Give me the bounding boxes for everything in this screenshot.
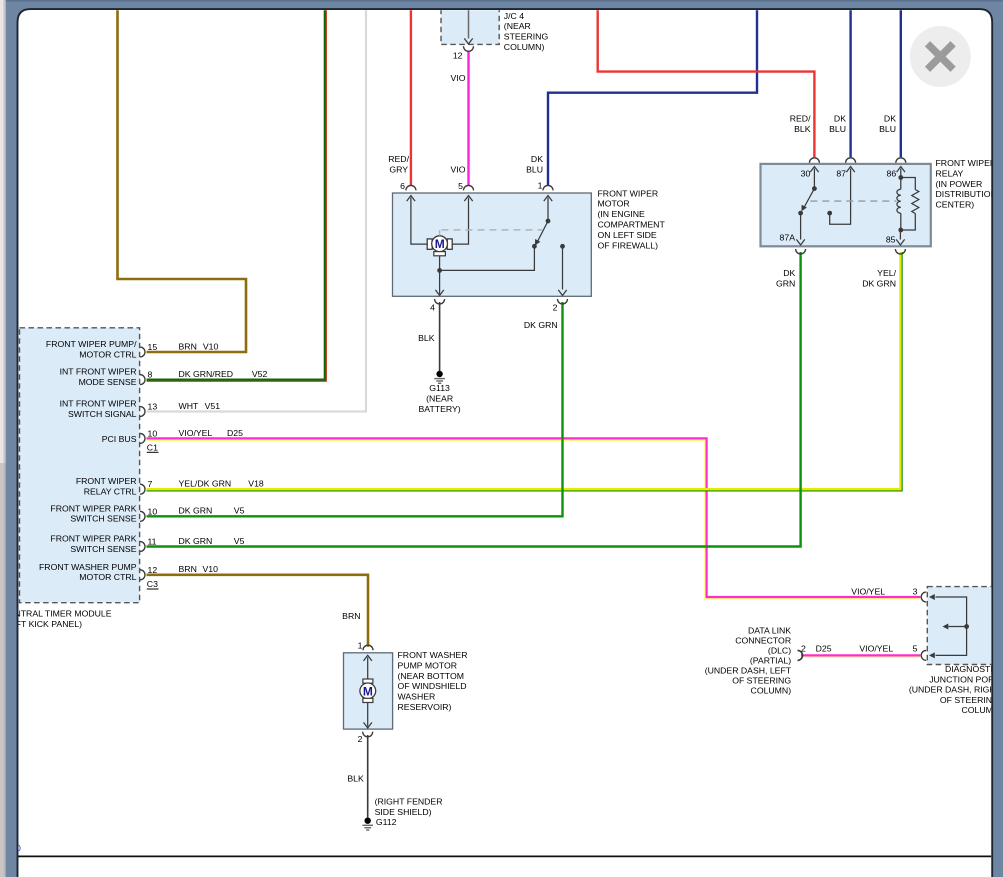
ground G112 bbox=[365, 818, 371, 824]
wiper motor pin 5 notch bbox=[464, 185, 474, 190]
svg-text:10: 10 bbox=[148, 506, 158, 516]
svg-text:CENTER): CENTER) bbox=[936, 200, 975, 210]
relay resistor R parallel to coil bbox=[901, 178, 916, 190]
svg-text:DK GRN: DK GRN bbox=[179, 506, 213, 516]
relay internal pin 30 wire and arrow bbox=[810, 167, 818, 173]
svg-text:BLK: BLK bbox=[418, 333, 435, 343]
svg-text:SWITCH SIGNAL: SWITCH SIGNAL bbox=[68, 409, 137, 419]
module pin 10 notch bbox=[140, 433, 145, 443]
motor symbol M of wiper motor bbox=[427, 239, 432, 249]
svg-text:WASHER: WASHER bbox=[398, 692, 436, 702]
alternate contact node and wire to pin 2 bbox=[560, 244, 565, 249]
svg-text:YEL/DK GRN: YEL/DK GRN bbox=[179, 479, 232, 489]
motor symbol M of washer pump bbox=[363, 679, 373, 683]
svg-text:(NEAR: (NEAR bbox=[504, 21, 531, 31]
svg-text:BRN: BRN bbox=[179, 341, 197, 351]
junction node below motor bbox=[437, 268, 442, 273]
svg-text:(IN POWER: (IN POWER bbox=[936, 179, 983, 189]
svg-text:FRONT WASHER PUMP: FRONT WASHER PUMP bbox=[39, 562, 137, 572]
relay linkage dashed line bbox=[810, 200, 896, 202]
svg-text:V52: V52 bbox=[252, 369, 268, 379]
svg-text:10: 10 bbox=[148, 428, 158, 438]
svg-text:PUMP MOTOR: PUMP MOTOR bbox=[398, 660, 458, 670]
svg-text:DK GRN/RED: DK GRN/RED bbox=[179, 369, 234, 379]
wire DK GRN V5 from module pin 11 to relay pin 87A bbox=[147, 252, 801, 547]
svg-text:RESERVOIR): RESERVOIR) bbox=[398, 702, 452, 712]
svg-text:C3: C3 bbox=[147, 579, 158, 589]
module pin 7 notch bbox=[140, 484, 145, 494]
svg-text:RELAY: RELAY bbox=[936, 168, 964, 178]
wiper motor internal park contact wire to switch bbox=[440, 246, 535, 270]
wire YEL/DK GRN V18 from module pin 7 to relay pin 85 - yellow main bbox=[147, 252, 901, 489]
relay coil bbox=[900, 178, 902, 190]
central timer module box (dashed) bbox=[20, 328, 140, 603]
relay pin 30 notch bbox=[809, 158, 819, 163]
svg-text:DK GRN: DK GRN bbox=[179, 536, 213, 546]
svg-text:DK: DK bbox=[531, 154, 543, 164]
svg-text:11: 11 bbox=[148, 537, 157, 547]
relay pin 87 notch bbox=[846, 158, 856, 163]
svg-text:OF WINDSHIELD: OF WINDSHIELD bbox=[398, 681, 467, 691]
svg-text:V5: V5 bbox=[234, 536, 245, 546]
wire BLK from wiper motor pin 4 to ground G113 bbox=[439, 302, 441, 372]
diagnostic junction port box (dashed) bbox=[927, 587, 1003, 665]
svg-text:V10: V10 bbox=[203, 341, 219, 351]
wire VIO/YEL D25 PCI bus from module pin 10 to DLC pin 3 - yellow tracer bbox=[147, 440, 921, 599]
svg-text:JUNCTION PORT: JUNCTION PORT bbox=[929, 674, 1000, 684]
svg-text:OF STEERING: OF STEERING bbox=[732, 676, 791, 686]
wire BRN V10 from module pin 12 to washer pump motor pin 1 bbox=[147, 575, 369, 647]
svg-text:4: 4 bbox=[430, 302, 435, 312]
washer motor internal wire and arrows bbox=[364, 655, 372, 661]
svg-text:(NEAR: (NEAR bbox=[426, 393, 453, 403]
relay common contact node bbox=[798, 211, 803, 216]
svg-text:DK GRN: DK GRN bbox=[862, 278, 896, 288]
junction port internal arrow branch bbox=[964, 624, 969, 629]
left browser scrollbar strip lower bbox=[0, 463, 6, 877]
wire VIO/YEL D25 PCI bus from module pin 10 to DLC pin 3 - pink main bbox=[147, 438, 921, 597]
svg-text:INT FRONT WIPER: INT FRONT WIPER bbox=[60, 399, 137, 409]
wire DK GRN/RED V52 from module pin 8 up to top - red tracer bbox=[147, 10, 327, 381]
module pin 12 notch bbox=[140, 570, 145, 580]
svg-text:DK GRN: DK GRN bbox=[524, 320, 558, 330]
svg-text:2: 2 bbox=[358, 734, 363, 744]
svg-text:FRONT WIPER: FRONT WIPER bbox=[598, 188, 659, 198]
wire BLK from washer pump motor pin 2 to ground G112 bbox=[367, 735, 369, 818]
wiper motor pin 1 notch bbox=[543, 185, 553, 190]
svg-text:30: 30 bbox=[801, 169, 811, 179]
wire DK BLU from top to relay pin 86 bbox=[900, 10, 902, 157]
svg-text:DK: DK bbox=[884, 114, 896, 124]
relay switch pivot node pin 30 bbox=[812, 186, 817, 191]
front washer pump motor box bbox=[344, 653, 393, 729]
svg-text:DK: DK bbox=[834, 114, 846, 124]
svg-text:BLU: BLU bbox=[829, 124, 846, 134]
relay coil bottom node bbox=[898, 228, 903, 233]
modal close button X glyph bbox=[928, 44, 954, 70]
svg-text:ON LEFT SIDE: ON LEFT SIDE bbox=[598, 230, 657, 240]
svg-text:(PARTIAL): (PARTIAL) bbox=[750, 656, 791, 666]
mechanical linkage solid stub to motor bbox=[439, 230, 441, 236]
svg-text:2: 2 bbox=[553, 302, 558, 312]
svg-text:BRN: BRN bbox=[342, 611, 360, 621]
svg-text:(IN ENGINE: (IN ENGINE bbox=[598, 209, 646, 219]
wiper motor pin 4 notch bbox=[435, 299, 445, 304]
svg-text:FRONT WIPER PARK: FRONT WIPER PARK bbox=[50, 503, 136, 513]
module pin 11 notch bbox=[140, 542, 145, 552]
svg-text:CENTRAL TIMER MODULE: CENTRAL TIMER MODULE bbox=[2, 609, 111, 619]
svg-text:FRONT WIPER: FRONT WIPER bbox=[936, 158, 997, 168]
wiper motor internal wire pin5 to motor bbox=[464, 196, 472, 202]
svg-text:OF STEERING: OF STEERING bbox=[940, 695, 999, 705]
svg-text:DATA LINK: DATA LINK bbox=[748, 626, 791, 636]
wire YEL/DK GRN V18 from module pin 7 to relay pin 85 - green tracer bbox=[147, 252, 903, 491]
module pin 10 notch bbox=[140, 511, 145, 521]
module pin 8 notch bbox=[140, 375, 145, 385]
wire VIO from J/C4 pin 12 down to wiper motor pin 5 bbox=[467, 51, 469, 186]
svg-text:G112: G112 bbox=[376, 817, 397, 827]
washer motor pin 2 notch bbox=[363, 732, 373, 737]
wiper motor pin 2 notch bbox=[558, 299, 568, 304]
svg-text:D25: D25 bbox=[816, 644, 832, 654]
diagram bottom frame line bbox=[18, 855, 991, 857]
svg-text:7: 7 bbox=[148, 479, 153, 489]
svg-text:5: 5 bbox=[913, 644, 918, 654]
svg-text:VIO: VIO bbox=[451, 73, 466, 83]
relay internal pin 87 wire and arrow bbox=[846, 167, 854, 173]
page top darker edge line bbox=[0, 0, 1003, 2]
svg-text:1: 1 bbox=[538, 181, 543, 191]
svg-text:RELAY CTRL: RELAY CTRL bbox=[84, 487, 137, 497]
svg-text:FRONT WIPER PARK: FRONT WIPER PARK bbox=[50, 534, 136, 544]
washer motor pin 1 notch bbox=[363, 645, 373, 650]
wire WHT V51 from module pin 13 up to top bbox=[147, 10, 367, 412]
svg-text:DIAGNOSTIC: DIAGNOSTIC bbox=[945, 664, 999, 674]
relay internal wire contact to pin 87A bbox=[800, 213, 802, 239]
relay pin 86 notch bbox=[896, 158, 906, 163]
svg-text:2: 2 bbox=[801, 644, 806, 654]
ground G113 bbox=[436, 371, 442, 377]
relay switch blade bbox=[804, 189, 814, 208]
svg-text:RED/: RED/ bbox=[388, 154, 409, 164]
svg-text:SIDE SHIELD): SIDE SHIELD) bbox=[375, 807, 432, 817]
svg-text:15: 15 bbox=[148, 342, 158, 352]
svg-text:87: 87 bbox=[836, 169, 846, 179]
svg-text:VIO/YEL: VIO/YEL bbox=[851, 587, 885, 597]
wire VIO/YEL D25 short lead to DLC pin 5 - yellow tracer bbox=[802, 656, 920, 658]
svg-text:V10: V10 bbox=[203, 564, 219, 574]
wire BRN V10 from module pin 15 up to top bbox=[118, 10, 247, 352]
wire DK GRN/RED V52 from module pin 8 up to top - green main bbox=[147, 10, 325, 380]
DLC pin 5 notch bbox=[921, 650, 926, 660]
svg-text:PCI BUS: PCI BUS bbox=[102, 434, 137, 444]
svg-text:MODE SENSE: MODE SENSE bbox=[79, 377, 137, 387]
svg-text:1: 1 bbox=[358, 641, 363, 651]
mechanical linkage dashed line in wiper motor bbox=[442, 229, 543, 231]
module pin 13 notch bbox=[140, 407, 145, 417]
wire DK BLU from top to wiper motor pin 1 bbox=[548, 10, 757, 186]
svg-text:(UNDER DASH, LEFT: (UNDER DASH, LEFT bbox=[705, 666, 792, 676]
relay coil top node bbox=[898, 175, 903, 180]
J/C 4 internal gray wire with down arrow bbox=[468, 2, 470, 39]
svg-text:COLUMN): COLUMN) bbox=[504, 42, 545, 52]
svg-text:(RIGHT FENDER: (RIGHT FENDER bbox=[375, 797, 443, 807]
svg-text:RED/: RED/ bbox=[790, 114, 811, 124]
svg-text:BLU: BLU bbox=[526, 164, 543, 174]
svg-text:8: 8 bbox=[148, 370, 153, 380]
svg-text:CONNECTOR: CONNECTOR bbox=[735, 636, 791, 646]
svg-text:INT FRONT WIPER: INT FRONT WIPER bbox=[60, 367, 137, 377]
svg-text:COMPARTMENT: COMPARTMENT bbox=[598, 220, 666, 230]
wire DK GRN V5 from module pin 10 to wiper motor pin 2 bbox=[147, 302, 563, 516]
junction connector J/C 4 box (dashed) bbox=[441, 2, 499, 44]
svg-text:VIO/YEL: VIO/YEL bbox=[859, 644, 893, 654]
svg-text:VIO: VIO bbox=[451, 164, 466, 174]
DLC pin 3 notch bbox=[921, 592, 926, 602]
junction port internal wiring bbox=[929, 594, 935, 600]
svg-text:M: M bbox=[363, 684, 373, 698]
modal close button circle bbox=[910, 26, 971, 87]
wire RED/BLK from top to relay pin 30 bbox=[598, 10, 815, 157]
wire DK BLU from top to relay pin 87 bbox=[849, 10, 851, 157]
relay NO contact node pin 87 bbox=[827, 211, 832, 216]
module pin 15 notch bbox=[140, 347, 145, 357]
left browser scrollbar strip upper bbox=[0, 0, 6, 463]
svg-text:D25: D25 bbox=[227, 428, 243, 438]
svg-text:86: 86 bbox=[887, 169, 897, 179]
svg-text:87A: 87A bbox=[780, 233, 796, 243]
svg-text:(UNDER DASH, RIGHT: (UNDER DASH, RIGHT bbox=[909, 685, 1002, 695]
svg-text:BRN: BRN bbox=[179, 564, 197, 574]
park switch lower contact node bbox=[532, 244, 537, 249]
svg-text:COLUMN): COLUMN) bbox=[751, 686, 792, 696]
notch at left end of D25 lead bbox=[798, 650, 803, 660]
svg-text:SWITCH SENSE: SWITCH SENSE bbox=[70, 514, 136, 524]
svg-text:V18: V18 bbox=[248, 479, 264, 489]
svg-text:3: 3 bbox=[913, 587, 918, 597]
relay internal pin 86 wire and arrow bbox=[897, 167, 905, 173]
svg-text:12: 12 bbox=[148, 565, 158, 575]
svg-text:SWITCH SENSE: SWITCH SENSE bbox=[70, 544, 136, 554]
svg-text:VIO/YEL: VIO/YEL bbox=[179, 428, 213, 438]
svg-text:FRONT WIPER: FRONT WIPER bbox=[76, 476, 137, 486]
svg-text:DISTRIBUTION: DISTRIBUTION bbox=[936, 189, 997, 199]
svg-text:MOTOR CTRL: MOTOR CTRL bbox=[79, 572, 136, 582]
scrollbar strip divider line bbox=[4, 0, 5, 877]
svg-text:BLK: BLK bbox=[794, 124, 811, 134]
svg-text:BATTERY): BATTERY) bbox=[419, 404, 461, 414]
wiper motor internal wire pin1 to switch pivot bbox=[544, 196, 552, 202]
svg-text:BLU: BLU bbox=[879, 124, 896, 134]
svg-text:BLK: BLK bbox=[347, 774, 364, 784]
svg-text:G113: G113 bbox=[429, 383, 450, 393]
svg-text:MOTOR CTRL: MOTOR CTRL bbox=[79, 349, 136, 359]
svg-text:STEERING: STEERING bbox=[504, 32, 549, 42]
relay pin 85 notch bbox=[895, 249, 905, 254]
wiper motor internal wire pin6 to motor bbox=[407, 196, 415, 202]
svg-text:FRONT WASHER: FRONT WASHER bbox=[398, 650, 468, 660]
svg-text:85: 85 bbox=[886, 235, 896, 245]
svg-text:YEL/: YEL/ bbox=[877, 268, 896, 278]
relay internal wire coil to pin 85 bbox=[899, 230, 901, 240]
switch pivot node at pin 1 bbox=[546, 219, 551, 224]
svg-text:GRN: GRN bbox=[776, 278, 795, 288]
wiper motor internal wire motor to junction and pin 4 bbox=[439, 256, 441, 290]
J/C 4 pin 12 connector notch bbox=[464, 46, 474, 51]
svg-text:5: 5 bbox=[458, 181, 463, 191]
svg-text:MOTOR: MOTOR bbox=[598, 199, 630, 209]
svg-text:V51: V51 bbox=[205, 401, 221, 411]
svg-text:WHT: WHT bbox=[179, 401, 199, 411]
wiper motor park switch blade bbox=[538, 221, 549, 242]
svg-text:J/C 4: J/C 4 bbox=[504, 11, 524, 21]
svg-text:12: 12 bbox=[453, 51, 463, 61]
svg-text:OF FIREWALL): OF FIREWALL) bbox=[598, 240, 659, 250]
wire VIO/YEL D25 short lead to DLC pin 5 - pink main bbox=[801, 654, 920, 656]
svg-text:(DLC): (DLC) bbox=[768, 646, 791, 656]
svg-text:13: 13 bbox=[148, 402, 158, 412]
svg-text:(NEAR BOTTOM: (NEAR BOTTOM bbox=[398, 671, 464, 681]
relay pin 87A notch bbox=[796, 249, 806, 254]
svg-text:DK: DK bbox=[783, 268, 795, 278]
svg-text:M: M bbox=[435, 237, 445, 251]
wire RED/GRY vertical from top to wiper motor pin 6 bbox=[410, 10, 412, 186]
svg-text:GRY: GRY bbox=[389, 164, 408, 174]
wiper motor pin 6 notch bbox=[406, 185, 416, 190]
svg-text:V5: V5 bbox=[234, 506, 245, 516]
front wiper motor box bbox=[393, 193, 592, 296]
front wiper relay box bbox=[761, 164, 931, 246]
svg-text:C1: C1 bbox=[147, 443, 158, 453]
svg-text:6: 6 bbox=[400, 181, 405, 191]
svg-text:FRONT WIPER PUMP/: FRONT WIPER PUMP/ bbox=[46, 339, 137, 349]
